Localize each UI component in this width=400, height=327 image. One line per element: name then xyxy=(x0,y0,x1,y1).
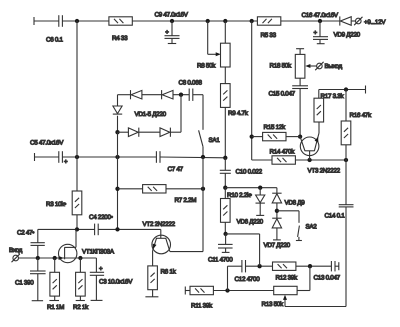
node: junction R16 bottom rail xyxy=(344,158,348,162)
node: junction VD8/VD7 xyxy=(275,203,279,218)
capacitor C8 xyxy=(179,80,203,101)
svg-text:C1 390: C1 390 xyxy=(15,280,34,287)
resistor R12 xyxy=(273,262,299,282)
node: junction C16 tap xyxy=(318,19,322,23)
node: junction base line x=117.5 xyxy=(115,227,119,231)
svg-text:R12 39k: R12 39k xyxy=(276,275,299,282)
transistor VT3 2N2222 xyxy=(300,133,341,175)
wire: R10 leads xyxy=(224,188,226,234)
wire: R18 top open lead xyxy=(296,49,304,55)
svg-text:VD9 Д220: VD9 Д220 xyxy=(334,32,361,39)
wire: R8 top lead xyxy=(224,21,226,43)
wire: bridge right rail xyxy=(180,95,182,133)
svg-text:VT1КП303А: VT1КП303А xyxy=(82,249,115,256)
potentiometer R18 wiper xyxy=(305,64,317,68)
svg-text:C10 0.022: C10 0.022 xyxy=(236,169,263,176)
svg-text:Выход: Выход xyxy=(325,63,343,70)
svg-text:C16 47.0x16V: C16 47.0x16V xyxy=(302,12,339,19)
wire: R11 row y=290.5 xyxy=(185,287,273,295)
capacitor C2 xyxy=(17,229,45,258)
node: junction base line x=77 xyxy=(75,227,79,231)
potentiometer R8 xyxy=(197,43,230,69)
wire: R13 wiper from C14 line xyxy=(283,295,346,307)
resistor R16 xyxy=(341,112,372,145)
node: junction R16 top xyxy=(344,87,348,91)
wire: R1 leads + common bar xyxy=(49,258,59,301)
node: junction C15/R15/VT3 collector xyxy=(298,134,302,138)
svg-text:R7 2.2M: R7 2.2M xyxy=(175,197,197,204)
node: junction C1/C2 xyxy=(36,256,40,260)
svg-text:R5 33: R5 33 xyxy=(261,32,277,39)
svg-text:SA2: SA2 xyxy=(306,224,318,231)
diode VD9 xyxy=(334,16,361,38)
svg-text:VT3 2N2222: VT3 2N2222 xyxy=(308,168,341,175)
resistor R3 xyxy=(46,191,82,215)
wire: R9 bottom to y=157 rail xyxy=(224,107,226,157)
svg-text:C9 47.0x16V: C9 47.0x16V xyxy=(155,12,189,19)
svg-text:R13 50k: R13 50k xyxy=(262,301,285,308)
transistor VT2 2N2222 xyxy=(143,221,204,266)
svg-text:VD6 Д220: VD6 Д220 xyxy=(237,219,264,226)
capacitor C3 electrolytic to common xyxy=(90,258,133,300)
wire: R12 right to C13 xyxy=(296,265,332,267)
wire: R3 bottom to base line xyxy=(76,215,78,230)
node: junction R15 left xyxy=(250,134,254,138)
wire: R14 row xyxy=(252,159,346,161)
node: junction R8 top xyxy=(223,19,227,23)
svg-text:C6 0.1: C6 0.1 xyxy=(46,37,64,44)
node: junction x=251.7 branch xyxy=(250,19,254,23)
switch SA2 to common xyxy=(277,211,317,241)
resistor R15 xyxy=(263,124,286,141)
svg-text:+: + xyxy=(314,30,318,37)
svg-text:C2 47•: C2 47• xyxy=(17,230,34,237)
svg-text:VD8 Д9: VD8 Д9 xyxy=(285,200,306,207)
svg-text:С3 10.0x16V: С3 10.0x16V xyxy=(99,279,133,286)
resistor R11 xyxy=(190,286,213,309)
node: bridge bottom-left junction xyxy=(115,130,119,134)
svg-text:+: + xyxy=(64,159,68,166)
wire: R9 line through C10 xyxy=(224,158,226,188)
resistor R17 xyxy=(314,93,344,122)
svg-text:C13 0.047: C13 0.047 xyxy=(314,275,341,282)
resistor R6 xyxy=(148,266,177,290)
wire: bridge rail x=117.5 down xyxy=(117,132,119,229)
resistor R7 xyxy=(143,185,197,204)
node: junction C9 tap xyxy=(170,19,174,23)
connector: +9...12V supply terminal xyxy=(354,17,386,26)
wire: bridge top rail y=94.7 xyxy=(118,94,190,96)
node: junction VD6 top xyxy=(258,186,262,190)
node: junction rail end at R9 line xyxy=(223,156,227,160)
svg-text:C8 0.068: C8 0.068 xyxy=(179,80,203,87)
svg-text:C11 4700: C11 4700 xyxy=(208,257,233,264)
node: junction C10 bottom / VD row xyxy=(223,186,227,190)
svg-text:SA1: SA1 xyxy=(209,137,221,144)
wire: input line y=258 xyxy=(18,257,96,259)
connector: input terminal xyxy=(9,247,23,262)
svg-text:C7 47: C7 47 xyxy=(168,166,184,173)
svg-text:+: + xyxy=(99,266,103,273)
svg-text:R11 39k: R11 39k xyxy=(191,303,213,310)
switch SA1 xyxy=(199,130,221,157)
svg-text:R2 1k: R2 1k xyxy=(73,304,89,311)
node: junction R1 top xyxy=(53,256,57,260)
wire: R8 bottom to R9 top xyxy=(224,67,226,84)
node: junction rail/vertical x=77 xyxy=(75,155,79,159)
svg-text:C5 47.0x16V: C5 47.0x16V xyxy=(30,140,64,147)
resistor R9 xyxy=(221,84,249,117)
transistor VT1 KP303A JFET xyxy=(58,229,114,262)
wire: C8 to SA1 corner xyxy=(193,95,203,130)
wire: C12 branch up xyxy=(228,266,242,290)
capacitor C7 xyxy=(156,151,183,173)
node: junction C12 branch xyxy=(225,288,229,292)
resistor R14 xyxy=(270,149,296,165)
resistor R1 xyxy=(47,272,64,311)
wire: R10 net to C12 junction xyxy=(226,234,260,266)
diode VD1 (bridge top-left) xyxy=(131,90,142,99)
svg-text:R4 33: R4 33 xyxy=(112,35,128,42)
svg-text:R9 4.7k: R9 4.7k xyxy=(228,110,249,117)
node: junction R10 bottom / C11 xyxy=(223,232,227,236)
wire: R15 row xyxy=(252,136,300,138)
diode VD7 to common xyxy=(264,218,291,249)
wire: left vertical x=77 top rail to R3 xyxy=(76,21,78,191)
wire: base line y=229.4 xyxy=(38,229,161,238)
capacitor C6 xyxy=(46,15,64,43)
svg-text:VT2 2N2222: VT2 2N2222 xyxy=(143,221,176,228)
potentiometer R13 xyxy=(262,286,298,308)
wire: x=251.7 branch down xyxy=(251,21,253,160)
wire: top right rail y=89.5 xyxy=(319,86,366,99)
wire: R8 wiper arm xyxy=(208,21,221,56)
wire: SA1 line down to collector corner xyxy=(202,157,204,252)
wire: R16 leads xyxy=(345,90,347,161)
node: junction rail/bridge rail x=117.5 xyxy=(115,155,119,159)
svg-text:C12 4700: C12 4700 xyxy=(235,276,261,283)
svg-text:C4 2200•: C4 2200• xyxy=(89,214,113,221)
svg-text:R18 50k: R18 50k xyxy=(270,63,293,70)
resistor R5 xyxy=(257,17,280,39)
node: junction R7 right / collector line xyxy=(201,187,205,191)
diode VD6 to common xyxy=(237,188,265,226)
svg-text:R8 50k: R8 50k xyxy=(197,63,216,70)
wire: bridge left rail xyxy=(117,95,119,133)
svg-text:R10 2.2k•: R10 2.2k• xyxy=(227,192,252,199)
capacitor C13 xyxy=(314,261,341,282)
svg-text:C15 0.047: C15 0.047 xyxy=(269,91,296,98)
capacitor C9 electrolytic to common xyxy=(155,12,189,44)
node: junction R12/C13/R13 xyxy=(308,264,312,268)
resistor R10 xyxy=(221,192,252,222)
diode VD4 (bridge bottom-right, pointing right) xyxy=(160,128,170,137)
node: junction VT3 base xyxy=(307,158,311,162)
connector: output terminal xyxy=(315,62,342,70)
svg-text:R6 1k: R6 1k xyxy=(161,269,177,276)
diode VD5 (bridge left, pointing down) xyxy=(113,106,167,118)
svg-text:C14 0.1: C14 0.1 xyxy=(325,213,346,220)
capacitor C12 xyxy=(235,260,261,283)
capacitor C5 electrolytic xyxy=(30,140,68,166)
node: junction VD7 line / C12 / R12 xyxy=(257,264,261,268)
svg-text:R3 10k•: R3 10k• xyxy=(46,201,66,208)
wire: R7 row xyxy=(118,188,204,190)
svg-text:R1 1M: R1 1M xyxy=(47,304,64,311)
wire: bridge bottom rail y=132.2 xyxy=(118,131,182,133)
wire: emitter to R17 xyxy=(318,122,320,133)
capacitor C1 to common xyxy=(15,258,46,301)
svg-text:Вход: Вход xyxy=(9,247,23,254)
svg-text:R15 12k: R15 12k xyxy=(264,124,287,131)
capacitor C10 xyxy=(220,169,263,176)
svg-text:VD7 Д220: VD7 Д220 xyxy=(264,242,291,249)
wire: C12 to R12 xyxy=(246,265,273,267)
capacitor C14 xyxy=(325,160,354,307)
wire: VD row y=187.4 xyxy=(225,188,277,194)
diode VD8 xyxy=(272,193,305,206)
node: junction R2 top xyxy=(78,256,82,260)
wire: R6 bottom to common xyxy=(145,290,158,297)
node: junction R7 left xyxy=(115,187,119,191)
node: junction R8 wiper tap xyxy=(206,19,210,23)
resistor R4 xyxy=(109,17,132,42)
wire: R2 leads + common bar xyxy=(76,258,85,301)
diode VD2 (bridge top-right) xyxy=(162,90,173,99)
svg-text:R16 47k: R16 47k xyxy=(350,112,373,119)
svg-text:R14 470k: R14 470k xyxy=(270,149,296,156)
potentiometer R18 xyxy=(270,54,305,78)
node: junction C6/R4 rail x=77 xyxy=(75,19,79,23)
svg-text:+9...12V: +9...12V xyxy=(364,19,386,26)
svg-text:VD1-5 Д220: VD1-5 Д220 xyxy=(135,111,167,118)
wire: rail y=157 xyxy=(35,153,226,161)
wire: top supply rail y=21 xyxy=(34,17,356,25)
capacitor C16 electrolytic to common xyxy=(302,12,339,44)
node: bridge top-right junction xyxy=(179,93,183,97)
wire: C13 open tick xyxy=(335,262,339,270)
svg-text:R17 3.3k: R17 3.3k xyxy=(321,93,345,100)
capacitor C15 xyxy=(269,78,309,136)
diode VD3 (bridge bottom-left, pointing right) xyxy=(128,128,138,137)
resistor R2 xyxy=(73,272,89,311)
capacitor C4 xyxy=(89,214,113,235)
capacitor C11 to common xyxy=(208,234,233,264)
node: junction rail/SA1 line x=203 xyxy=(201,155,205,159)
wire: R13 right side up to R12 junction xyxy=(297,266,310,290)
